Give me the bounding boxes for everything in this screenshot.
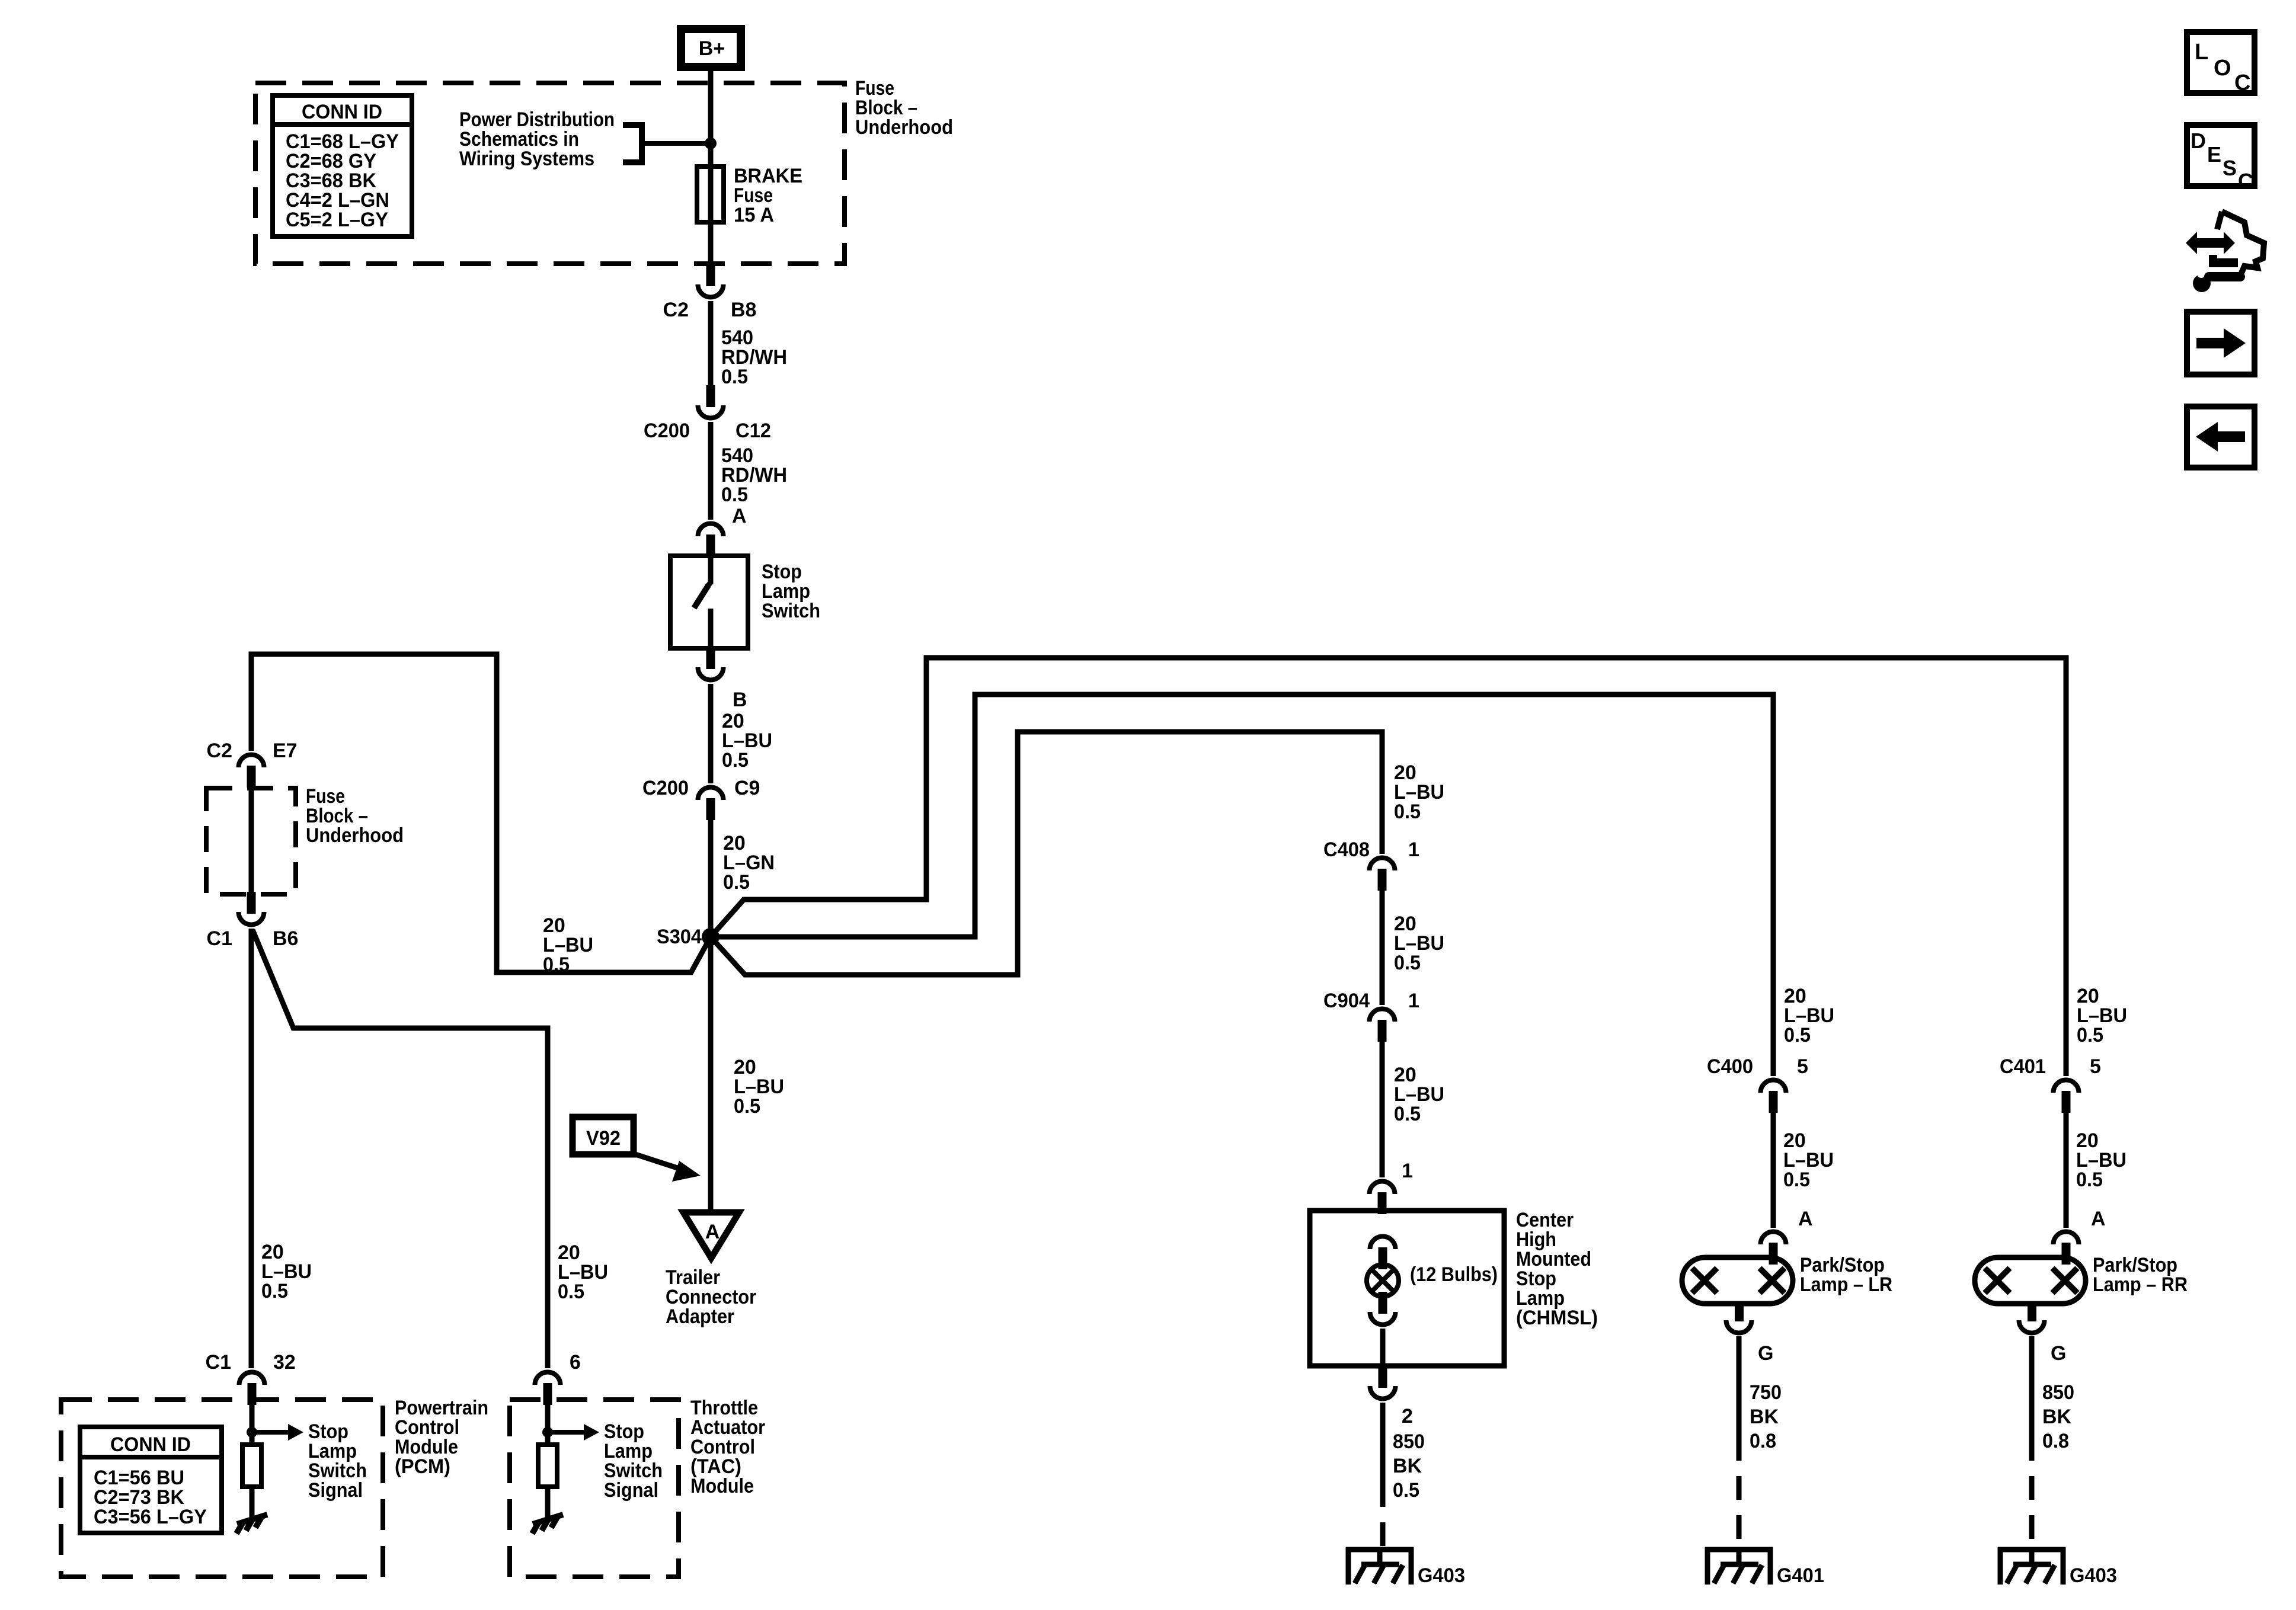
svg-text:2: 2 xyxy=(1402,1405,1413,1427)
svg-text:B: B xyxy=(733,689,747,711)
svg-text:G403: G403 xyxy=(1418,1564,1465,1587)
input resistor (PCM) xyxy=(242,1445,261,1487)
svg-text:S304: S304 xyxy=(657,926,702,948)
svg-text:0.5: 0.5 xyxy=(558,1281,584,1303)
bracket and reference line to wire xyxy=(623,125,642,162)
dashed ground lead (LR) xyxy=(1737,1437,1742,1548)
fuse BRAKE 15A xyxy=(697,167,724,222)
svg-text:C: C xyxy=(2238,169,2253,193)
connector C200/C9 xyxy=(706,798,715,820)
svg-text:Underhood: Underhood xyxy=(855,116,953,139)
svg-text:0.5: 0.5 xyxy=(1393,1479,1419,1502)
svg-text:Switch: Switch xyxy=(762,600,820,622)
connector 6 (TAC) xyxy=(543,1383,552,1405)
svg-text:BK: BK xyxy=(1393,1455,1422,1477)
wire B to C200/C9 xyxy=(708,684,714,783)
junction dot (TAC) xyxy=(542,1427,553,1438)
svg-text:CONN ID: CONN ID xyxy=(110,1433,191,1456)
wire resistor to ground (PCM) xyxy=(250,1487,255,1518)
CHMSL internal socket top xyxy=(1379,1247,1387,1269)
power feed B+ box xyxy=(681,29,741,67)
icon forward arrow box xyxy=(2187,312,2255,375)
svg-text:Signal: Signal xyxy=(308,1479,363,1502)
svg-text:C401: C401 xyxy=(2000,1055,2046,1078)
svg-text:850: 850 xyxy=(1393,1430,1425,1453)
bulb (CHMSL) xyxy=(1367,1265,1399,1297)
wire CHMSL to ground lead xyxy=(1380,1403,1386,1483)
splice S304 xyxy=(702,928,720,946)
ground G401 xyxy=(1705,1547,1773,1553)
connector C2/E7 xyxy=(247,766,256,788)
svg-text:5: 5 xyxy=(1797,1055,1808,1078)
connector C408 xyxy=(1378,869,1387,891)
svg-text:C2: C2 xyxy=(663,299,689,321)
svg-text:0.5: 0.5 xyxy=(1394,801,1421,823)
stop lamp switch box xyxy=(670,556,748,648)
connector G (LR) xyxy=(1726,1320,1752,1333)
CONN ID table (fuse block) xyxy=(273,95,412,236)
wire through left fuse block xyxy=(249,786,254,896)
svg-text:C200: C200 xyxy=(644,420,690,442)
svg-text:C200: C200 xyxy=(642,777,689,799)
connector C2/B8 xyxy=(706,264,715,286)
icon DESC box xyxy=(2187,125,2255,186)
svg-text:B8: B8 xyxy=(731,299,756,321)
svg-text:C: C xyxy=(2234,71,2250,95)
signal arrow (PCM) xyxy=(252,1430,290,1435)
PCM dashed box xyxy=(61,1400,383,1577)
svg-text:C904: C904 xyxy=(1323,990,1370,1012)
wire LR lamp to ground lead xyxy=(1737,1336,1742,1437)
svg-text:C3=56 L–GY: C3=56 L–GY xyxy=(94,1506,207,1528)
park/stop lamp LR xyxy=(1682,1257,1793,1304)
svg-text:(PCM): (PCM) xyxy=(395,1455,450,1478)
svg-text:0.5: 0.5 xyxy=(734,1095,760,1118)
svg-text:(CHMSL): (CHMSL) xyxy=(1516,1307,1598,1329)
svg-text:750: 750 xyxy=(1750,1381,1782,1404)
svg-text:0.5: 0.5 xyxy=(1394,952,1421,974)
park/stop lamp RR xyxy=(1975,1257,2086,1304)
svg-text:A: A xyxy=(2091,1208,2106,1230)
connector C1/B6 xyxy=(247,892,256,914)
wire S304 to RR riser xyxy=(711,658,2066,1076)
svg-text:B+: B+ xyxy=(699,37,725,60)
svg-text:0.5: 0.5 xyxy=(543,953,570,976)
wire C904 to CHMSL xyxy=(1380,1040,1385,1177)
wire C408 to C904 xyxy=(1380,889,1385,1005)
svg-text:0.5: 0.5 xyxy=(722,749,749,772)
wire B+ to fuse xyxy=(708,67,714,169)
wire into PCM xyxy=(250,1403,255,1445)
svg-text:0.5: 0.5 xyxy=(1394,1103,1421,1125)
wire C400 to lamp LR xyxy=(1771,1111,1776,1228)
svg-text:1: 1 xyxy=(1402,1160,1413,1182)
connector C1/32 xyxy=(248,1383,257,1405)
wire B6 to PCM xyxy=(249,929,254,1368)
fuse block underhood dashed box xyxy=(255,83,845,264)
junction dot (PCM) xyxy=(247,1427,257,1438)
wire C2/B8 to C200/C12 xyxy=(708,301,714,386)
svg-text:A: A xyxy=(705,1221,720,1243)
icon back arrow box xyxy=(2187,406,2255,468)
svg-text:Lamp – RR: Lamp – RR xyxy=(2093,1273,2188,1296)
fuse block underhood dashed box (left) xyxy=(206,788,296,894)
junction dot on B+ feed xyxy=(705,137,717,149)
svg-text:0.5: 0.5 xyxy=(261,1280,288,1302)
svg-text:15 A: 15 A xyxy=(734,204,774,226)
svg-text:E7: E7 xyxy=(273,740,298,762)
svg-text:C1: C1 xyxy=(207,927,232,950)
dashed ground lead (RR) xyxy=(2029,1437,2035,1548)
connector C400 xyxy=(1769,1091,1778,1113)
svg-text:(12 Bulbs): (12 Bulbs) xyxy=(1410,1263,1498,1286)
svg-text:G: G xyxy=(2051,1342,2066,1365)
svg-text:C2: C2 xyxy=(207,740,232,762)
wire C200/C9 to trailer adapter xyxy=(708,818,714,1212)
ground G403 (RR) xyxy=(1998,1547,2065,1553)
lamp RR output pin xyxy=(2028,1302,2036,1321)
wire B6 to TAC xyxy=(252,930,548,1368)
svg-text:C400: C400 xyxy=(1707,1055,1753,1078)
svg-text:Wiring Systems: Wiring Systems xyxy=(459,148,594,170)
connector 2 (CHMSL out) xyxy=(1379,1366,1387,1388)
icon LOC box xyxy=(2187,32,2255,93)
callout V92 box xyxy=(573,1117,634,1154)
ground G403 (CHMSL) xyxy=(1346,1547,1414,1553)
stop lamp switch contacts xyxy=(707,556,711,587)
connector C200/C12 xyxy=(706,385,715,407)
wire RR lamp to ground lead xyxy=(2029,1336,2035,1437)
ground (TAC internal) xyxy=(533,1515,563,1524)
svg-text:G: G xyxy=(1758,1342,1773,1365)
svg-text:O: O xyxy=(2214,56,2231,81)
icon shortcut wrench-arrows xyxy=(2186,232,2235,254)
svg-text:0.5: 0.5 xyxy=(2077,1024,2103,1046)
svg-text:0.5: 0.5 xyxy=(721,484,748,506)
svg-text:0.8: 0.8 xyxy=(1750,1430,1776,1452)
svg-text:L: L xyxy=(2195,40,2208,65)
svg-text:Lamp – LR: Lamp – LR xyxy=(1800,1273,1892,1296)
CHMSL internal socket bottom xyxy=(1379,1292,1387,1314)
wire C401 to lamp RR xyxy=(2064,1111,2069,1228)
ground (PCM internal) xyxy=(237,1515,267,1524)
svg-text:G401: G401 xyxy=(1777,1564,1824,1587)
svg-text:C408: C408 xyxy=(1323,838,1370,861)
svg-text:Adapter: Adapter xyxy=(666,1305,734,1328)
input resistor (TAC) xyxy=(538,1445,557,1487)
svg-text:S: S xyxy=(2223,156,2237,180)
CONN ID table (PCM) xyxy=(80,1427,222,1533)
svg-text:6: 6 xyxy=(570,1351,581,1374)
connector 1 (CHMSL) xyxy=(1378,1192,1387,1214)
svg-text:D: D xyxy=(2191,129,2206,153)
wire inside CHMSL xyxy=(1380,1329,1386,1366)
trailer connector adapter triangle xyxy=(683,1212,739,1258)
svg-text:0.5: 0.5 xyxy=(1783,1169,1810,1191)
svg-text:C5=2 L–GY: C5=2 L–GY xyxy=(286,209,388,231)
wire S304 to CHMSL riser xyxy=(711,732,1382,975)
svg-text:BK: BK xyxy=(2042,1406,2072,1428)
svg-text:B6: B6 xyxy=(273,927,298,950)
svg-text:BK: BK xyxy=(1750,1406,1779,1428)
svg-text:V92: V92 xyxy=(586,1127,621,1150)
connector G (RR) xyxy=(2019,1320,2045,1333)
wire resistor to ground (TAC) xyxy=(545,1487,551,1518)
TAC dashed box xyxy=(510,1400,679,1577)
svg-text:0.5: 0.5 xyxy=(2076,1169,2103,1191)
wire C200/C12 to switch xyxy=(708,422,714,520)
svg-text:Signal: Signal xyxy=(604,1479,658,1502)
svg-text:1: 1 xyxy=(1408,838,1419,861)
svg-text:1: 1 xyxy=(1408,990,1419,1012)
svg-text:Module: Module xyxy=(690,1475,754,1497)
svg-text:E: E xyxy=(2207,142,2221,167)
connector A (LR lamp) xyxy=(1769,1243,1778,1265)
svg-text:Underhood: Underhood xyxy=(306,824,404,847)
svg-text:A: A xyxy=(732,505,747,527)
wire S304 to LR riser xyxy=(711,694,1773,1076)
svg-text:C1: C1 xyxy=(206,1351,231,1374)
connector A (stop lamp switch) xyxy=(706,534,715,556)
lamp LR output pin xyxy=(1735,1302,1744,1321)
connector A (RR lamp) xyxy=(2062,1243,2071,1265)
connector C401 xyxy=(2062,1091,2071,1113)
svg-text:0.8: 0.8 xyxy=(2042,1430,2069,1452)
svg-text:0.5: 0.5 xyxy=(723,871,750,894)
svg-text:0.5: 0.5 xyxy=(721,366,748,388)
svg-text:C9: C9 xyxy=(734,777,760,799)
wire S304 to left fuse block branch xyxy=(251,654,711,972)
svg-text:5: 5 xyxy=(2090,1055,2101,1078)
wire into TAC xyxy=(545,1403,551,1445)
svg-text:A: A xyxy=(1798,1208,1813,1230)
connector B (switch output) xyxy=(706,647,715,669)
signal arrow (TAC) xyxy=(548,1430,586,1435)
CHMSL box xyxy=(1310,1211,1504,1366)
svg-text:0.5: 0.5 xyxy=(1784,1024,1811,1046)
svg-text:32: 32 xyxy=(273,1351,296,1374)
svg-text:C12: C12 xyxy=(736,420,771,442)
svg-text:CONN ID: CONN ID xyxy=(302,101,382,123)
svg-text:G403: G403 xyxy=(2070,1564,2117,1587)
dashed ground lead (CHMSL) xyxy=(1380,1483,1386,1548)
svg-text:850: 850 xyxy=(2042,1381,2074,1404)
connector C904 xyxy=(1378,1020,1387,1042)
callout V92 arrow xyxy=(634,1154,679,1169)
wire fuse to C2/B8 xyxy=(708,220,714,266)
